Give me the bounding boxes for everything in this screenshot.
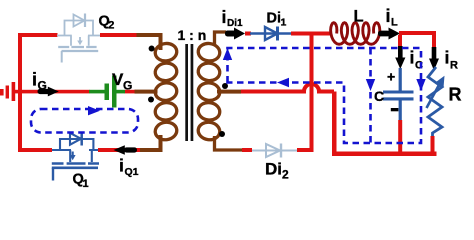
wire top right corner down (432, 31, 436, 49)
loop arrow up (near secondary) (223, 48, 232, 60)
svg-text:G: G (123, 79, 132, 93)
wire Q2 to transformer (100, 33, 137, 37)
wire bottom right rail (332, 152, 437, 157)
arrow iDi1 (225, 28, 245, 40)
dot primary top (149, 46, 155, 52)
current loop 1 (input loop, dashed) (31, 109, 138, 133)
wire top left (18, 33, 58, 37)
transistor Q2 (MOSFET, off, pale) (57, 14, 100, 63)
svg-text:Di1: Di1 (227, 18, 243, 29)
resistor R (variable) (427, 67, 443, 137)
diode Di1 (250, 27, 292, 41)
svg-text:R: R (450, 60, 458, 72)
svg-text:i: i (410, 48, 415, 68)
wire secondary center tap (217, 90, 241, 94)
loop arrow down (R loop) (416, 79, 425, 91)
svg-text:i: i (386, 6, 391, 26)
arrow iQ1 (114, 145, 138, 155)
wire secondary tap to output (with hop) (241, 84, 334, 91)
label C minus (391, 108, 399, 111)
wire bottom left (18, 148, 52, 152)
svg-text:2: 2 (282, 168, 289, 182)
dot secondary bottom (219, 131, 225, 137)
arrow iL (378, 28, 400, 40)
inductor L (331, 23, 380, 45)
wire C branch top (398, 35, 402, 47)
transformer core (185, 44, 188, 141)
wire primary bottom lead (140, 135, 161, 150)
svg-text:G: G (38, 79, 47, 93)
svg-text:Di: Di (265, 160, 282, 179)
wire Di1 to L (291, 32, 331, 36)
loop arrow down (C loop) (366, 79, 375, 91)
wire primary center tap (135, 90, 158, 94)
svg-text:i: i (119, 156, 124, 176)
svg-text:i: i (445, 48, 450, 68)
battery VG (89, 76, 125, 108)
wire output left vertical (332, 92, 337, 156)
svg-text:L: L (391, 17, 398, 29)
svg-text:1: 1 (83, 178, 89, 190)
loop arrow left (center tap) (277, 78, 289, 87)
svg-text:1 : n: 1 : n (178, 27, 207, 43)
svg-text:R: R (449, 85, 462, 105)
svg-text:Q1: Q1 (125, 166, 139, 178)
svg-text:1: 1 (281, 16, 287, 28)
wire Di1 anode stub (245, 32, 251, 36)
dot secondary center (222, 83, 228, 89)
svg-text:2: 2 (108, 20, 114, 32)
arrow iG (38, 87, 59, 97)
svg-text:C: C (374, 88, 384, 104)
svg-text:Di: Di (267, 10, 282, 26)
ground (0, 82, 20, 101)
wire secondary bottom red stub (242, 148, 252, 152)
arrow iC (395, 46, 405, 69)
transformer primary winding (154, 37, 178, 148)
wire Q1 to transformer (98, 148, 140, 152)
wire V_G right red (125, 90, 136, 94)
wire Di2 to link (297, 148, 314, 152)
current loop 2 (output loops, dashed) (228, 48, 422, 143)
svg-text:i: i (222, 7, 227, 27)
svg-text:i: i (32, 70, 37, 90)
diode Di2 (off, pale) (252, 144, 297, 158)
svg-text:+: + (387, 69, 395, 85)
wire primary top lead (137, 35, 161, 50)
wire C branch bottom (398, 120, 402, 155)
transistor Q1 (MOSFET, on, steel blue) (52, 132, 99, 181)
arrow iR (429, 47, 439, 71)
wire R branch bottom (431, 136, 435, 155)
transformer secondary winding (197, 32, 243, 150)
svg-text:L: L (354, 7, 364, 25)
wire top right (399, 31, 436, 35)
capacitor C (383, 68, 414, 121)
wire left rail (18, 33, 22, 152)
dot primary center (148, 97, 154, 103)
wire rectifier link vertical (310, 33, 314, 152)
wire source row (20, 90, 90, 94)
